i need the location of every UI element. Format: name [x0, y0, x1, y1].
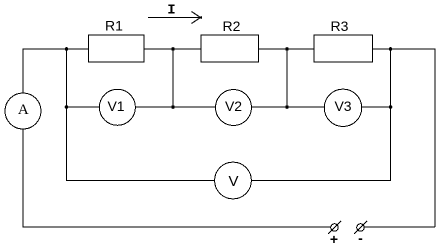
wire V2 to V3	[252, 106, 325, 108]
wire R2 to R3	[259, 48, 315, 50]
resistor R3	[314, 18, 373, 62]
wire node1 drop x=66.5 down to V row and V-total row	[67, 49, 215, 181]
node A1: junction dot top bus x=66.5	[65, 47, 69, 51]
node C2: junction dot V row x=287	[285, 105, 289, 109]
wire R1 to R2	[144, 48, 201, 50]
svg-text:-: -	[358, 230, 363, 244]
wire top bus left: A riser and segment to R1	[23, 49, 89, 93]
wire V3 to node4	[362, 106, 391, 108]
wire V row: node1 to V1	[67, 106, 100, 108]
node D2: junction dot V row x=390.5	[389, 105, 393, 109]
wire V1 to V2	[135, 106, 215, 108]
resistor R1	[89, 18, 145, 63]
svg-text:A: A	[18, 102, 29, 118]
voltmeter V3	[324, 89, 361, 126]
node B1: junction dot top bus x=173	[171, 47, 175, 51]
svg-text:V1: V1	[107, 98, 124, 114]
svg-text:V3: V3	[334, 98, 351, 114]
svg-text:R2: R2	[223, 18, 241, 34]
svg-text:V2: V2	[225, 98, 242, 114]
node B2: junction dot V row x=173	[171, 105, 175, 109]
wire R3 to right riser, down right side	[373, 49, 436, 227]
svg-text:+: +	[330, 231, 338, 244]
node A2: junction dot V row x=66.5	[65, 105, 69, 109]
svg-text:R3: R3	[331, 18, 349, 34]
voltmeter V (total)	[215, 162, 252, 199]
node C1: junction dot top bus x=287	[285, 47, 289, 51]
voltmeter V2	[216, 90, 252, 126]
ammeter A	[5, 93, 41, 129]
wire node3 drop x=287	[286, 49, 288, 107]
svg-text:R1: R1	[105, 18, 123, 34]
wire - terminal to right riser	[364, 226, 435, 228]
terminal + (positive supply)	[328, 221, 341, 244]
wire A bottom to bottom bus, bus to + terminal	[23, 129, 331, 227]
wire node4 drop x=390.5 down right to V-total row	[251, 49, 390, 181]
terminal - (negative supply)	[354, 221, 367, 244]
node D1: junction dot top bus x=390.5	[389, 47, 393, 51]
svg-text:I: I	[167, 2, 175, 18]
resistor R2	[201, 18, 259, 62]
svg-text:V: V	[228, 173, 238, 190]
voltmeter V1	[99, 89, 135, 125]
wire node2 drop x=173	[172, 49, 174, 107]
current arrow I	[148, 2, 202, 23]
